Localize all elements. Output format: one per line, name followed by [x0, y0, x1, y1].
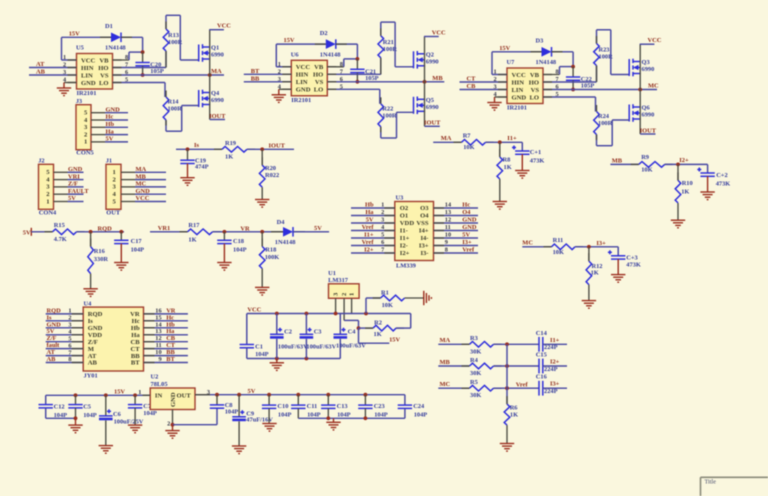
svg-text:I3+: I3+: [550, 381, 560, 388]
svg-text:R022: R022: [265, 172, 279, 179]
svg-text:O2: O2: [400, 205, 409, 212]
svg-text:Q2: Q2: [426, 51, 434, 58]
svg-text:MB: MB: [612, 158, 623, 165]
svg-text:474P: 474P: [195, 164, 209, 171]
svg-text:I1+: I1+: [550, 337, 560, 344]
svg-text:HIN: HIN: [512, 79, 525, 86]
svg-text:VB: VB: [314, 64, 324, 71]
svg-text:OUT: OUT: [106, 209, 121, 216]
svg-text:11: 11: [156, 342, 162, 349]
svg-text:Q6: Q6: [642, 105, 651, 112]
svg-text:1: 1: [84, 139, 87, 146]
svg-text:R10: R10: [682, 180, 693, 187]
svg-text:MA: MA: [440, 337, 451, 344]
svg-text:R9: R9: [641, 154, 649, 161]
svg-text:D4: D4: [277, 219, 286, 226]
svg-text:1: 1: [349, 293, 356, 296]
svg-text:105P: 105P: [581, 83, 595, 90]
svg-text:Q1: Q1: [211, 45, 219, 52]
svg-text:HO: HO: [529, 79, 539, 86]
svg-text:1: 1: [63, 54, 66, 61]
svg-text:224P: 224P: [544, 366, 558, 373]
svg-text:15V: 15V: [499, 45, 510, 52]
svg-text:Q3: Q3: [642, 59, 650, 66]
svg-text:U2: U2: [151, 374, 159, 381]
svg-text:R8: R8: [503, 157, 511, 164]
svg-text:LO: LO: [314, 87, 324, 94]
svg-text:I1+: I1+: [400, 235, 410, 242]
svg-text:C23: C23: [374, 403, 385, 410]
svg-text:1K: 1K: [681, 188, 689, 195]
svg-text:C2: C2: [284, 329, 292, 336]
svg-text:U6: U6: [291, 52, 300, 59]
svg-text:Ha: Ha: [166, 328, 175, 335]
svg-text:Hc: Hc: [106, 114, 114, 121]
svg-text:VCC: VCC: [247, 306, 261, 313]
svg-text:MA: MA: [136, 166, 147, 173]
svg-text:VCC: VCC: [217, 23, 231, 30]
svg-text:Hc: Hc: [132, 318, 140, 325]
svg-text:R1: R1: [381, 290, 389, 297]
svg-text:MC: MC: [136, 181, 147, 188]
svg-text:I4-: I4-: [420, 235, 428, 242]
svg-text:5: 5: [381, 232, 384, 239]
svg-text:J3: J3: [76, 98, 82, 105]
svg-text:VSS: VSS: [416, 220, 428, 227]
svg-text:VS: VS: [100, 72, 109, 79]
svg-text:100uF/63V: 100uF/63V: [306, 343, 336, 350]
svg-text:5V: 5V: [462, 232, 470, 239]
svg-text:CT: CT: [131, 346, 141, 353]
svg-text:LIN: LIN: [512, 87, 524, 94]
svg-text:1K: 1K: [225, 153, 233, 160]
svg-text:O3: O3: [420, 205, 429, 212]
svg-text:Vref: Vref: [516, 381, 529, 388]
svg-text:1K: 1K: [374, 331, 382, 338]
svg-text:MB: MB: [432, 75, 443, 82]
svg-text:OUT: OUT: [177, 392, 192, 399]
svg-text:R15: R15: [54, 222, 65, 229]
svg-text:1: 1: [138, 389, 141, 396]
svg-text:Ha: Ha: [131, 332, 140, 339]
svg-text:Ha: Ha: [365, 209, 374, 216]
svg-text:D2: D2: [320, 30, 328, 37]
svg-text:VDD: VDD: [88, 332, 103, 339]
svg-text:VR1: VR1: [158, 225, 170, 232]
svg-text:MA: MA: [211, 68, 222, 75]
svg-text:LO: LO: [99, 80, 109, 87]
svg-text:C12: C12: [54, 403, 65, 410]
svg-text:R5: R5: [470, 379, 478, 386]
svg-text:11: 11: [445, 224, 451, 231]
svg-text:14: 14: [445, 202, 452, 209]
svg-text:GND: GND: [296, 87, 311, 94]
svg-text:13: 13: [155, 328, 161, 335]
svg-text:R19: R19: [225, 140, 236, 147]
svg-text:8: 8: [68, 356, 71, 363]
svg-text:VCC: VCC: [512, 72, 527, 79]
svg-text:8: 8: [340, 61, 343, 68]
svg-text:5V: 5V: [68, 195, 76, 202]
svg-text:C6: C6: [113, 411, 122, 418]
svg-text:O4: O4: [462, 209, 471, 216]
svg-text:GND: GND: [106, 106, 121, 113]
svg-text:1K: 1K: [188, 236, 196, 243]
svg-text:5V: 5V: [106, 136, 114, 143]
svg-text:7: 7: [381, 247, 384, 254]
svg-text:78L05: 78L05: [151, 381, 168, 388]
svg-text:C3: C3: [314, 329, 322, 336]
svg-text:104P: 104P: [414, 412, 428, 419]
svg-text:104P: 104P: [337, 412, 351, 419]
svg-text:FAULT: FAULT: [68, 188, 89, 195]
svg-text:VCC: VCC: [296, 64, 311, 71]
svg-text:100R: 100R: [382, 112, 397, 119]
svg-text:AB: AB: [36, 69, 46, 76]
svg-text:473K: 473K: [716, 180, 731, 187]
svg-text:2: 2: [68, 315, 71, 322]
svg-text:CON4: CON4: [39, 209, 57, 216]
svg-text:I1+: I1+: [364, 232, 374, 239]
svg-text:6990: 6990: [642, 112, 655, 119]
svg-text:fault: fault: [47, 342, 61, 349]
svg-text:C14: C14: [536, 330, 548, 337]
svg-text:1K: 1K: [504, 164, 512, 171]
svg-text:Hb: Hb: [365, 202, 374, 209]
svg-text:MB: MB: [136, 173, 147, 180]
svg-text:104P: 104P: [278, 412, 292, 419]
svg-text:104P: 104P: [143, 410, 157, 417]
svg-text:6990: 6990: [426, 104, 439, 111]
svg-text:GND: GND: [170, 392, 177, 407]
svg-text:U3: U3: [396, 195, 404, 202]
svg-text:30K: 30K: [470, 392, 481, 399]
svg-text:15V: 15V: [284, 37, 295, 44]
svg-text:30K: 30K: [470, 348, 481, 355]
svg-text:R21: R21: [383, 39, 394, 46]
svg-text:AB: AB: [47, 356, 57, 363]
svg-text:GND: GND: [512, 94, 527, 101]
svg-text:CT: CT: [166, 342, 176, 349]
svg-text:100uF/63V: 100uF/63V: [278, 343, 308, 350]
svg-text:I2-: I2-: [400, 243, 408, 250]
svg-text:Is: Is: [194, 142, 199, 149]
svg-text:AT: AT: [36, 61, 45, 68]
svg-text:1: 1: [381, 202, 384, 209]
svg-text:R6: R6: [510, 405, 519, 412]
svg-text:MA: MA: [441, 135, 452, 142]
svg-text:BT: BT: [166, 356, 175, 363]
svg-text:HO: HO: [98, 65, 108, 72]
svg-text:HIN: HIN: [81, 65, 94, 72]
svg-text:VS: VS: [531, 87, 540, 94]
svg-text:5V: 5V: [248, 388, 256, 395]
svg-text:U7: U7: [507, 59, 516, 66]
svg-text:105P: 105P: [150, 68, 164, 75]
svg-text:15V: 15V: [389, 337, 400, 344]
svg-text:5V: 5V: [47, 328, 55, 335]
svg-text:5V: 5V: [23, 230, 31, 237]
svg-text:I3+: I3+: [462, 239, 472, 246]
svg-text:6990: 6990: [426, 59, 439, 66]
svg-text:R2: R2: [374, 319, 382, 326]
svg-text:1N4148: 1N4148: [105, 45, 126, 52]
svg-text:C+1: C+1: [530, 149, 541, 156]
svg-text:GND: GND: [136, 188, 151, 195]
svg-text:104P: 104P: [307, 412, 321, 419]
svg-text:1K: 1K: [510, 412, 518, 419]
svg-text:IOUT: IOUT: [640, 127, 657, 134]
svg-text:6990: 6990: [642, 66, 655, 73]
svg-text:C24: C24: [413, 403, 425, 410]
svg-text:CON5: CON5: [76, 150, 93, 157]
svg-text:AB: AB: [88, 360, 98, 367]
svg-text:R18: R18: [265, 246, 276, 253]
svg-text:C18: C18: [233, 238, 244, 245]
svg-text:6: 6: [68, 342, 71, 349]
svg-text:VB: VB: [99, 57, 109, 64]
svg-text:C16: C16: [536, 374, 548, 381]
svg-text:BT: BT: [131, 360, 140, 367]
svg-text:3: 3: [381, 217, 384, 224]
svg-text:I4+: I4+: [419, 228, 429, 235]
svg-text:VRI: VRI: [68, 173, 80, 180]
svg-text:5V: 5V: [366, 217, 374, 224]
svg-text:9: 9: [158, 356, 161, 363]
svg-text:1: 1: [113, 169, 116, 176]
svg-text:1N4148: 1N4148: [275, 239, 296, 246]
svg-text:GND: GND: [462, 224, 477, 231]
svg-text:330R: 330R: [94, 256, 109, 263]
svg-text:IOUT: IOUT: [269, 143, 286, 150]
svg-text:Title: Title: [705, 479, 717, 486]
svg-text:C4: C4: [348, 329, 357, 336]
svg-text:LM317: LM317: [328, 277, 349, 284]
svg-text:C11: C11: [307, 403, 318, 410]
svg-text:R4: R4: [470, 357, 479, 364]
svg-text:R7: R7: [463, 132, 472, 139]
svg-text:IOUT: IOUT: [424, 120, 441, 127]
svg-text:224P: 224P: [544, 388, 558, 395]
svg-text:5V: 5V: [314, 225, 322, 232]
svg-text:8: 8: [125, 54, 128, 61]
svg-text:IN: IN: [155, 392, 163, 399]
svg-text:HO: HO: [313, 72, 323, 79]
svg-text:LIN: LIN: [81, 72, 93, 79]
svg-text:10K: 10K: [641, 167, 652, 174]
svg-text:104P: 104P: [131, 246, 145, 253]
svg-text:CT: CT: [467, 76, 477, 83]
svg-text:15V: 15V: [69, 30, 80, 37]
svg-text:104P: 104P: [233, 246, 247, 253]
svg-text:I3-: I3-: [420, 250, 428, 257]
svg-text:GND: GND: [81, 80, 96, 87]
svg-text:6990: 6990: [211, 97, 224, 104]
svg-text:BT: BT: [251, 68, 260, 75]
svg-text:C+2: C+2: [716, 172, 727, 179]
svg-text:I3+: I3+: [596, 240, 606, 247]
svg-text:IR2101: IR2101: [507, 105, 527, 112]
svg-text:100K: 100K: [265, 254, 280, 261]
svg-text:VDD: VDD: [400, 220, 415, 227]
svg-text:Vref: Vref: [362, 239, 375, 246]
svg-text:MC: MC: [440, 381, 451, 388]
svg-text:2: 2: [167, 421, 170, 428]
svg-text:U5: U5: [76, 45, 84, 52]
svg-text:C17: C17: [131, 238, 143, 245]
svg-text:C1: C1: [255, 343, 263, 350]
svg-text:9: 9: [445, 239, 448, 246]
svg-text:R3: R3: [470, 335, 478, 342]
svg-text:15V: 15V: [114, 388, 125, 395]
svg-text:LM339: LM339: [396, 263, 416, 270]
svg-text:C5: C5: [83, 403, 91, 410]
svg-text:Vref: Vref: [462, 247, 475, 254]
svg-text:C15: C15: [536, 352, 547, 359]
svg-text:IOUT: IOUT: [209, 113, 226, 120]
svg-text:1: 1: [278, 61, 281, 68]
svg-text:RQD: RQD: [98, 225, 113, 232]
svg-text:CB: CB: [467, 83, 477, 90]
svg-text:Q4: Q4: [211, 90, 220, 97]
svg-text:1K: 1K: [591, 269, 599, 276]
svg-text:J2: J2: [38, 158, 44, 165]
svg-text:100R: 100R: [598, 120, 613, 127]
svg-text:IR2101: IR2101: [291, 97, 311, 104]
svg-text:Is: Is: [47, 314, 52, 321]
svg-text:I1+: I1+: [507, 135, 517, 142]
svg-text:10K: 10K: [463, 144, 474, 151]
svg-text:VR: VR: [240, 226, 250, 233]
svg-text:R16: R16: [94, 248, 106, 255]
svg-text:LO: LO: [529, 94, 539, 101]
svg-text:473K: 473K: [626, 262, 641, 269]
svg-text:C+3: C+3: [626, 255, 637, 262]
svg-text:100R: 100R: [168, 106, 183, 113]
svg-text:I2+: I2+: [400, 250, 410, 257]
svg-text:10K: 10K: [382, 302, 393, 309]
svg-text:VCC: VCC: [136, 195, 150, 202]
svg-text:MC: MC: [522, 240, 533, 247]
svg-text:104P: 104P: [255, 351, 269, 358]
svg-text:1N4148: 1N4148: [320, 51, 341, 58]
svg-text:GND: GND: [462, 217, 477, 224]
svg-text:I3+: I3+: [419, 243, 429, 250]
svg-text:12: 12: [445, 217, 451, 224]
svg-text:1: 1: [46, 198, 49, 205]
svg-text:Hb: Hb: [106, 121, 115, 128]
svg-text:1N4148: 1N4148: [536, 59, 557, 66]
svg-text:GND: GND: [68, 166, 83, 173]
svg-text:Hc: Hc: [462, 202, 470, 209]
svg-text:Q5: Q5: [426, 97, 434, 104]
svg-text:R11: R11: [553, 237, 564, 244]
svg-text:104P: 104P: [83, 412, 97, 419]
svg-text:O1: O1: [400, 213, 408, 220]
svg-text:Vref: Vref: [362, 224, 375, 231]
svg-text:R17: R17: [188, 222, 200, 229]
svg-text:13: 13: [445, 209, 451, 216]
svg-text:D1: D1: [105, 23, 113, 30]
svg-text:VCC: VCC: [432, 30, 446, 37]
svg-text:VB: VB: [530, 72, 540, 79]
svg-text:Ha: Ha: [106, 128, 115, 135]
svg-text:10: 10: [445, 232, 451, 239]
svg-text:C10: C10: [277, 403, 288, 410]
svg-text:104P: 104P: [225, 408, 239, 415]
svg-text:6990: 6990: [211, 52, 224, 59]
svg-text:8: 8: [556, 69, 559, 76]
svg-text:O4: O4: [420, 213, 429, 220]
svg-text:1: 1: [494, 69, 497, 76]
svg-text:IR2101: IR2101: [77, 90, 97, 97]
svg-text:VCC: VCC: [81, 57, 96, 64]
svg-text:Hc: Hc: [166, 314, 174, 321]
svg-text:LIN: LIN: [296, 79, 308, 86]
svg-text:100uF/63V: 100uF/63V: [336, 343, 366, 350]
svg-text:30K: 30K: [470, 370, 481, 377]
svg-text:Is: Is: [88, 318, 94, 325]
svg-text:15: 15: [155, 314, 161, 321]
svg-text:VS: VS: [315, 79, 324, 86]
svg-text:I1-: I1-: [400, 228, 408, 235]
svg-text:Z/F: Z/F: [68, 181, 78, 188]
svg-text:R23: R23: [599, 47, 610, 54]
svg-text:C13: C13: [337, 403, 348, 410]
svg-text:U4: U4: [84, 300, 93, 307]
svg-text:I2+: I2+: [679, 157, 689, 164]
svg-text:6: 6: [381, 239, 384, 246]
svg-text:105P: 105P: [365, 75, 379, 82]
svg-text:I2+: I2+: [364, 247, 374, 254]
svg-text:J1: J1: [106, 158, 112, 165]
svg-text:104P: 104P: [374, 412, 388, 419]
svg-text:HIN: HIN: [296, 72, 309, 79]
svg-text:224P: 224P: [544, 344, 558, 351]
svg-text:JY01: JY01: [84, 373, 98, 380]
svg-text:MB: MB: [440, 359, 451, 366]
svg-text:4.7K: 4.7K: [54, 236, 67, 243]
svg-text:D3: D3: [536, 38, 544, 45]
svg-text:I2+: I2+: [550, 359, 560, 366]
svg-text:M: M: [88, 346, 95, 353]
svg-text:BB: BB: [251, 75, 260, 82]
svg-text:8: 8: [445, 247, 448, 254]
svg-text:473K: 473K: [530, 157, 545, 164]
svg-text:R13: R13: [168, 32, 179, 39]
svg-text:MC: MC: [648, 83, 659, 90]
svg-text:2: 2: [381, 209, 384, 216]
svg-text:VCC: VCC: [648, 37, 662, 44]
svg-text:10K: 10K: [553, 249, 564, 256]
